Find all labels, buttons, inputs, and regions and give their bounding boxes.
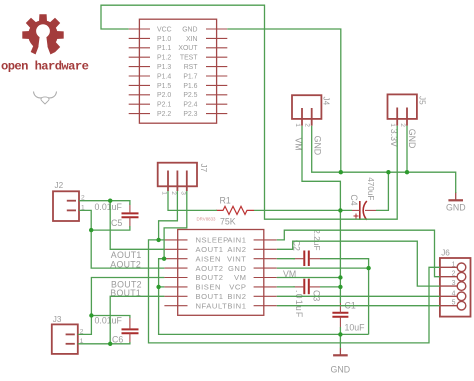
junction VM row: [338, 275, 342, 279]
svg-text:P1.6: P1.6: [183, 83, 197, 90]
svg-text:VINT: VINT: [227, 254, 247, 263]
wire VINT to C2: [277, 258, 295, 260]
wire VM: U2 VM pin row: [277, 277, 341, 279]
svg-text:AIN1: AIN1: [227, 236, 246, 245]
J4 pin numbers: [294, 123, 311, 127]
svg-text:RST: RST: [184, 64, 199, 71]
wire 3.3V net: J5.1 to MSP VCC: [101, 5, 397, 219]
wire BOUT1: junction up to U2 BOUT1: [110, 296, 164, 344]
connector J3 box: [52, 324, 78, 354]
svg-text:0.01uF: 0.01uF: [95, 315, 123, 325]
wire VCP to C3: [277, 286, 295, 288]
wire AIN2: U2 to J6.3: [277, 241, 440, 286]
C3 pins: [293, 286, 320, 288]
svg-text:GND: GND: [407, 129, 417, 149]
svg-text:P1.2: P1.2: [157, 55, 171, 62]
junction AOUT2: [89, 228, 93, 232]
svg-text:R1: R1: [220, 196, 231, 206]
wire BIN2: U2 to J6.4: [277, 295, 440, 297]
junction AISEN: [162, 257, 166, 261]
svg-text:NSLEEP: NSLEEP: [196, 236, 229, 245]
capacitor C4 polarized plates: [360, 201, 367, 220]
wire BISEN pin tap: [159, 286, 165, 288]
ground symbol bottom: [333, 348, 348, 355]
capacitor C1 plates: [332, 313, 348, 317]
wire GND: MSP GND pin to rail: [227, 29, 340, 172]
svg-text:GND: GND: [228, 264, 247, 273]
svg-text:P2.0: P2.0: [157, 92, 171, 99]
wire BOUT2: J3.2 up to U2 BOUT2: [78, 278, 165, 335]
svg-text:2: 2: [452, 271, 456, 278]
logo OSHW gear: [22, 14, 63, 59]
junction VM C3: [338, 285, 342, 289]
svg-text:J5: J5: [417, 96, 426, 105]
J6 pin pads: [457, 263, 466, 310]
J7 pins: [168, 171, 187, 192]
wire VM: C3 right plate: [320, 286, 340, 288]
svg-text:GND: GND: [331, 365, 351, 375]
svg-text:J7: J7: [199, 164, 208, 173]
svg-text:AISEN: AISEN: [196, 254, 222, 263]
svg-text:VM: VM: [234, 273, 247, 282]
svg-text:P1.1: P1.1: [157, 45, 171, 52]
junction NSLEEP: [156, 238, 160, 242]
wire BIN1: U2 to J6.5: [277, 305, 440, 307]
svg-text:P2.5: P2.5: [183, 92, 197, 99]
svg-text:1: 1: [161, 191, 168, 195]
wire AIN1: U2 to J6.2: [277, 230, 440, 277]
svg-text:3: 3: [179, 191, 186, 195]
U2 pin names: [196, 236, 247, 311]
svg-text:1: 1: [452, 261, 456, 268]
svg-text:BIN1: BIN1: [227, 301, 246, 310]
J3 pin numbers: [80, 328, 84, 345]
wire C1 bottom to ground symbol: [339, 327, 341, 348]
wire AISEN: J7.3 down: [164, 191, 187, 259]
U1 pins right: [206, 29, 227, 114]
IC U2 DRV8833 box: [178, 230, 264, 316]
svg-text:J2: J2: [55, 181, 64, 190]
connector J7 box: [158, 163, 197, 187]
svg-text:J6: J6: [441, 249, 450, 258]
wire BOUT1: J3.1 to C6 bottom: [78, 342, 130, 344]
svg-text:XOUT: XOUT: [178, 45, 198, 52]
svg-text:open hardware: open hardware: [1, 60, 89, 74]
resistor R1 75K: [216, 206, 254, 214]
svg-text:TEST: TEST: [180, 55, 198, 62]
svg-text:5: 5: [452, 300, 456, 307]
junction BOUT1: [108, 342, 112, 346]
svg-text:.01uF: .01uF: [294, 290, 304, 319]
connector J2 box: [53, 191, 79, 221]
junction GND C4: [386, 170, 390, 174]
J2 pin numbers: [81, 195, 85, 212]
U2 pins left: [164, 240, 187, 306]
svg-text:P1.7: P1.7: [183, 73, 197, 80]
ground symbol right: [448, 192, 463, 200]
svg-text:VCC: VCC: [157, 26, 172, 33]
junction GND C1: [338, 332, 342, 336]
J7 pin numbers: [161, 191, 187, 195]
svg-text:C4: C4: [349, 194, 359, 205]
svg-text:P2.1: P2.1: [157, 102, 171, 109]
J6 pin numbers: [452, 261, 456, 306]
svg-text:BOUT1: BOUT1: [196, 292, 224, 301]
junction GND J5: [405, 170, 409, 174]
wire GND: J5.2 to rail: [406, 126, 408, 173]
J6 pin stubs: [440, 267, 457, 305]
svg-text:C5: C5: [111, 218, 122, 228]
U1 pins left: [129, 29, 150, 114]
svg-text:AIN2: AIN2: [227, 245, 246, 254]
C2 pins: [293, 258, 320, 260]
svg-text:P2.4: P2.4: [183, 102, 197, 109]
junction VM R1 C4: [338, 208, 342, 212]
connector J5 box: [388, 94, 417, 119]
C6 pins: [129, 318, 131, 342]
svg-text:0.01uF: 0.01uF: [95, 202, 123, 212]
wire GND rail: J4.2 to ground symbol: [312, 126, 456, 193]
capacitor C5 plates: [122, 213, 139, 217]
longhorn mark: [34, 92, 57, 105]
svg-text:4: 4: [452, 290, 456, 297]
wire GND: C4 right plate to rail: [376, 172, 388, 210]
svg-text:10uF: 10uF: [345, 323, 366, 333]
svg-text:P1.0: P1.0: [157, 36, 171, 43]
svg-text:AOUT2: AOUT2: [196, 264, 224, 273]
svg-text:P1.3: P1.3: [157, 64, 171, 71]
svg-text:XIN: XIN: [186, 36, 198, 43]
svg-text:470uF: 470uF: [366, 177, 375, 200]
svg-text:NFAULT: NFAULT: [196, 301, 228, 310]
C1 pins: [339, 303, 341, 327]
wire AOUT1: junction down to U2 AOUT1: [110, 201, 164, 250]
svg-text:AOUT1: AOUT1: [196, 245, 224, 254]
svg-text:1: 1: [389, 123, 396, 127]
capacitor C3 plates: [304, 279, 309, 295]
junction AOUT1: [108, 199, 112, 203]
J4 pins: [302, 108, 312, 126]
wire AOUT2: J2.1 down to U2 AOUT2: [79, 210, 164, 268]
C5 pins: [129, 203, 131, 228]
capacitor C6 plates: [122, 329, 139, 333]
wire NSLEEP: junction to J6.1: [149, 240, 440, 343]
junction BISEN: [156, 285, 160, 289]
svg-text:3: 3: [452, 280, 456, 287]
J3 pins: [66, 334, 75, 343]
wire VM: J4.1 down to C1 top: [302, 126, 340, 303]
wire AOUT1: J2.2 to C5 top: [79, 201, 130, 205]
U2 pins right: [254, 240, 277, 306]
svg-text:J3: J3: [53, 315, 62, 324]
wire J7.1 to R1: [168, 191, 217, 210]
wire BOUT2: C6 top tap: [91, 316, 129, 319]
svg-text:VCP: VCP: [229, 283, 246, 292]
junction GND C2: [366, 266, 370, 270]
wire VM: R1 to C4 left: [254, 209, 352, 211]
svg-text:P2.3: P2.3: [183, 111, 197, 118]
svg-text:BISEN: BISEN: [196, 283, 222, 292]
svg-text:BIN2: BIN2: [227, 292, 246, 301]
J5 pins: [397, 108, 407, 126]
svg-text:DRV8833: DRV8833: [197, 216, 217, 221]
connector J4 box: [292, 95, 321, 119]
capacitor C2 plates: [304, 251, 309, 267]
C4 pins: [352, 209, 376, 211]
J5 pin numbers: [389, 123, 406, 127]
svg-text:BOUT2: BOUT2: [196, 273, 224, 282]
svg-text:2.2uF: 2.2uF: [312, 229, 322, 250]
C4 plus sign: [354, 214, 359, 219]
IC U1 MSP430 box: [139, 19, 216, 123]
wire GND: C2 right plate down to sense rail: [320, 259, 369, 335]
svg-text:2: 2: [170, 191, 177, 195]
junction GND msp: [339, 170, 343, 174]
svg-text:J4: J4: [321, 97, 330, 106]
svg-text:P1.5: P1.5: [157, 83, 171, 90]
wire NSLEEP: J7.2 to U2 pin: [159, 191, 178, 240]
svg-text:2: 2: [304, 123, 311, 127]
junction BOUT2: [89, 313, 93, 317]
svg-text:2: 2: [399, 123, 406, 127]
U1 pin names: [157, 26, 198, 118]
wire sense rail: AISEN jog down and along bottom: [159, 259, 369, 335]
svg-text:P2.2: P2.2: [157, 111, 171, 118]
wire AOUT2: C5 bottom tap: [91, 226, 130, 230]
wire GND row: U2 GND pin: [277, 267, 369, 269]
svg-text:GND: GND: [446, 203, 466, 213]
svg-text:1: 1: [294, 123, 301, 127]
svg-text:GND: GND: [312, 136, 322, 156]
J2 pins: [67, 201, 76, 211]
connector J6 box: [440, 258, 471, 317]
svg-text:C6: C6: [112, 335, 123, 345]
svg-text:75K: 75K: [220, 217, 236, 227]
svg-text:P1.4: P1.4: [157, 73, 171, 80]
svg-text:GND: GND: [182, 26, 197, 33]
